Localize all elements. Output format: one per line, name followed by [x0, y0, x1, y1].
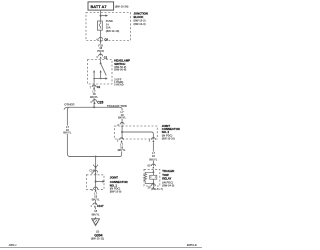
svg-text:PK/O: PK/O — [97, 49, 104, 53]
svg-text:(8W-15-9): (8W-15-9) — [110, 189, 122, 193]
svg-text:(8W-12-13): (8W-12-13) — [106, 29, 120, 33]
wire label L7 18 BK/YL trailer branch — [118, 110, 126, 119]
svg-text:2 HEAD: 2 HEAD — [114, 83, 124, 87]
svg-text:(8W-15-10): (8W-15-10) — [162, 136, 175, 140]
relay coil and resistor — [144, 169, 157, 186]
joint connector no 2 label — [162, 124, 180, 140]
fuse label — [106, 19, 120, 33]
headlamp switch label — [114, 59, 130, 87]
connector C26 — [90, 100, 103, 105]
connector C8 at junction block exit — [96, 37, 108, 41]
wire label L7 18 BK/YL — [149, 151, 157, 161]
connector C107 — [90, 203, 104, 208]
connector C1 headlamp switch top — [96, 54, 108, 59]
battery feed box BATT A7 — [88, 2, 114, 10]
wire BATT A7 to fuse — [100, 10, 102, 21]
headlamp switch internals — [93, 60, 108, 85]
trailer tow relay dashed box — [144, 169, 160, 186]
svg-text:J984-1: J984-1 — [9, 243, 18, 247]
wire jc2 down to splice run — [120, 142, 122, 156]
fuse 14 — [98, 21, 103, 30]
joint connector no 1 dashed box — [86, 175, 104, 190]
connector joint connector no 2 bottom left — [117, 138, 124, 143]
node splice at C26 — [93, 106, 95, 108]
svg-text:OTHER: OTHER — [64, 102, 75, 106]
joint connector no 1 label — [110, 176, 128, 194]
svg-text:BK/YL: BK/YL — [90, 95, 98, 99]
wire down from splice — [95, 157, 97, 175]
connector trailer tow relay top — [148, 164, 156, 169]
wire label L7 18 BK/YL — [118, 143, 126, 152]
svg-text:(8W-12-3): (8W-12-3) — [134, 22, 146, 26]
node splice to joint connector no 1 — [95, 156, 97, 158]
wire headlamp switch to C26 — [93, 89, 95, 107]
svg-text:JOINT: JOINT — [110, 176, 119, 180]
node splice below BATT A7 — [100, 15, 102, 17]
ground symbol — [92, 219, 100, 234]
wire label L7 18 BK/YL left branch — [63, 125, 71, 134]
svg-text:RELAY: RELAY — [162, 177, 171, 181]
svg-text:C8: C8 — [104, 38, 108, 42]
joint connector no 2 internals — [121, 126, 153, 139]
svg-text:(8W-51-7): (8W-51-7) — [151, 187, 163, 191]
connector joint connector no 2 bottom right — [149, 138, 156, 143]
wire label L7 18 BK/YL — [92, 191, 100, 201]
headlamp switch dashed box — [88, 60, 113, 85]
wire to C107 — [95, 191, 97, 204]
connector joint connector no 2 top — [117, 122, 124, 126]
wire label 18 BK/YL — [92, 209, 100, 217]
junction block dashed box — [86, 13, 131, 41]
svg-text:(8W-54-5): (8W-54-5) — [162, 184, 174, 188]
svg-text:BK/YL: BK/YL — [92, 212, 100, 216]
trailer tow relay label — [162, 169, 174, 188]
wire jc2 to trailer tow relay — [152, 142, 154, 166]
svg-text:(8W-12-2): (8W-12-2) — [134, 18, 146, 22]
wire fuse to headlamp switch — [100, 30, 102, 55]
svg-text:(8W-15-11): (8W-15-11) — [91, 236, 104, 240]
wire bottom splice run — [69, 156, 120, 158]
arrow to junction block — [101, 14, 108, 16]
svg-text:BATT A7: BATT A7 — [91, 4, 107, 9]
svg-text:(IN PDC): (IN PDC) — [162, 180, 173, 184]
wire left branch down — [67, 107, 69, 156]
svg-text:BK/YL: BK/YL — [149, 157, 157, 161]
ground label G304 — [91, 233, 104, 240]
svg-text:C1: C1 — [104, 55, 108, 59]
svg-text:TRAILER TOW: TRAILER TOW — [107, 104, 127, 108]
svg-text:BK/YL: BK/YL — [118, 116, 126, 120]
joint connector no 1 internals — [95, 175, 105, 190]
wire label L7 18 BK/YL — [90, 89, 98, 99]
inline connector — [89, 165, 97, 173]
connector trailer tow relay bottom — [148, 184, 163, 191]
svg-text:(8W-10-26): (8W-10-26) — [115, 4, 129, 8]
svg-text:BK/YL: BK/YL — [118, 148, 126, 152]
junction block label — [134, 11, 148, 26]
svg-text:BLOCK: BLOCK — [134, 15, 144, 19]
svg-text:C107: C107 — [97, 204, 104, 208]
svg-text:(8W-50-6): (8W-50-6) — [114, 68, 126, 72]
svg-text:C1: C1 — [97, 85, 101, 89]
joint connector no 2 dashed box — [115, 126, 158, 139]
wire C107 to ground — [95, 208, 97, 219]
svg-text:C26: C26 — [97, 100, 103, 104]
connector joint connector no 1 bottom — [91, 187, 97, 192]
wire horizontal splice run — [64, 107, 122, 124]
connector C1 headlamp switch bottom — [90, 84, 101, 90]
wire label F32 18 PK/O — [97, 44, 105, 53]
connector joint connector no 1 top — [91, 170, 97, 175]
svg-text:BK/YL: BK/YL — [92, 197, 100, 201]
svg-text:99854-B: 99854-B — [187, 243, 197, 247]
footer rule — [0, 247, 202, 249]
svg-text:BK/YL: BK/YL — [63, 131, 71, 135]
